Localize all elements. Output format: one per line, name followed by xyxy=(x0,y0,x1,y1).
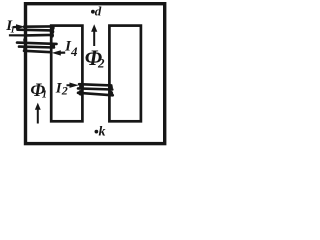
wire turn m3 xyxy=(78,93,113,96)
svg-text:4: 4 xyxy=(70,44,78,59)
svg-text:2: 2 xyxy=(61,84,68,98)
current arrow I1 xyxy=(16,24,25,29)
svg-text:d: d xyxy=(95,4,102,19)
wire turn m2 xyxy=(78,88,112,89)
wire lead of I4 xyxy=(57,51,65,53)
wire turn t1 xyxy=(24,25,53,28)
svg-text:1: 1 xyxy=(10,25,15,35)
svg-text:k: k xyxy=(99,125,106,140)
wire turn t4 xyxy=(17,43,57,44)
wrap blobs on window edge of W1 xyxy=(23,25,55,51)
core left window xyxy=(51,26,82,122)
core right window xyxy=(109,26,140,122)
flux arrow phi1 xyxy=(37,108,39,124)
node d terminal dot xyxy=(91,10,95,14)
wire lead 2 of W1 xyxy=(9,34,27,36)
wire turn t2 xyxy=(18,28,53,31)
winding W2 on middle leg xyxy=(78,84,113,95)
wire turn t3 xyxy=(26,34,52,37)
wire lead of I1 xyxy=(14,26,19,28)
current arrow I2 xyxy=(67,84,72,86)
svg-text:2: 2 xyxy=(97,55,105,70)
wrap blobs on middle leg edges of W2 xyxy=(78,84,113,97)
svg-text:1: 1 xyxy=(42,89,47,100)
flux arrow phi2 xyxy=(93,31,95,47)
core outer edge xyxy=(26,4,165,144)
current arrow I4 xyxy=(52,50,61,55)
wire turn t5 xyxy=(19,45,54,49)
wire turn t6 xyxy=(24,51,51,52)
winding W1 on left leg xyxy=(17,26,57,52)
wire turn m1 xyxy=(79,84,111,85)
node k terminal dot xyxy=(95,130,99,134)
